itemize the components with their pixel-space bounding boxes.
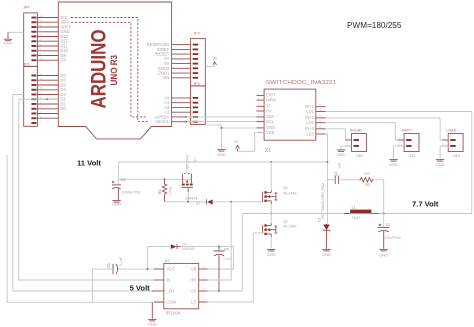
wire net IN from D2 row down left side — [19, 99, 154, 280]
supply 5V arrow near JP2 — [212, 55, 217, 65]
svg-text:7.7 Volt: 7.7 Volt — [412, 200, 439, 209]
svg-text:D8: D8 — [61, 58, 67, 63]
transistor Q2 IRLZ44Z — [263, 186, 298, 204]
wire LO to Q3 gate — [208, 233, 263, 302]
svg-text:COM: COM — [166, 299, 176, 304]
svg-text:R1: R1 — [158, 189, 162, 194]
junction HO riser — [230, 201, 232, 203]
mcu U1 left pin stubs — [37, 18, 58, 119]
connector U$2 SOLAR — [345, 129, 366, 159]
transistor Q3 IRLZ44Z — [263, 219, 298, 237]
mcu U1 left pin names — [61, 15, 72, 111]
svg-text:GND: GND — [379, 253, 388, 258]
svg-text:Q1: Q1 — [193, 158, 197, 163]
junction on IN net at pin row — [46, 98, 48, 100]
junction 11V to Q2 drain — [270, 161, 272, 163]
svg-text:PWM=180/255: PWM=180/255 — [347, 21, 402, 30]
svg-text:PV: PV — [266, 108, 272, 113]
junction A4 net — [185, 116, 187, 118]
svg-text:GND: GND — [112, 201, 121, 206]
svg-text:GND: GND — [389, 162, 398, 167]
wire switch node to L1 — [271, 213, 350, 215]
svg-text:SWITCHDOC_INA3221: SWITCHDOC_INA3221 — [266, 80, 337, 86]
junction Q1 source on gate-feed — [187, 201, 189, 203]
svg-text:C6: C6 — [107, 263, 111, 268]
svg-text:SOLAR: SOLAR — [350, 129, 363, 133]
svg-text:U$3: U$3 — [453, 153, 461, 158]
wire R2 to output node — [375, 180, 384, 214]
svg-text:LD2: LD2 — [306, 120, 314, 125]
mcu U1 ARDUINO UNO R3 outline — [58, 2, 171, 139]
svg-text:VB: VB — [191, 266, 197, 271]
ground below D2 — [322, 249, 331, 257]
wire D3 to VB — [181, 247, 234, 269]
svg-text:IRLZ44Z: IRLZ44Z — [283, 191, 297, 195]
svg-text:A5/SCL: A5/SCL — [155, 119, 170, 124]
wire 11V to Q2 drain — [270, 162, 272, 190]
mcu U1 right pin stubs — [172, 45, 191, 122]
wire VS corner to switch rail — [208, 214, 272, 292]
ic X1 SWITCHDOC_INA3221 — [256, 80, 336, 154]
wire 11V rail — [118, 161, 327, 163]
wire input rail — [118, 178, 191, 180]
wire C3 to R2 — [339, 179, 360, 181]
svg-text:ARDUINO: ARDUINO — [87, 30, 110, 109]
svg-text:U$1: U$1 — [409, 153, 417, 158]
svg-text:BATT: BATT — [402, 129, 412, 133]
svg-text:IRLZ44Z: IRLZ44Z — [186, 154, 190, 168]
svg-text:470K: 470K — [169, 186, 173, 195]
wire SOLAR pin2 to ground — [341, 146, 352, 149]
svg-text:IR2104: IR2104 — [165, 311, 180, 316]
wire LD3 net down to snubber — [326, 134, 328, 224]
svg-text:1N4738MCLORG_PAD: 1N4738MCLORG_PAD — [321, 183, 325, 220]
label 5 Volt — [130, 283, 151, 292]
diode D1 1N4148 — [185, 196, 213, 205]
ground below Q3 — [267, 249, 276, 257]
junction output C2 — [383, 212, 385, 214]
connector JP3 lower header — [191, 82, 206, 124]
wire IN+2b net to BATT — [326, 123, 405, 140]
ground below IR2104 COM — [148, 302, 157, 326]
diode D3 1N4148 — [171, 243, 195, 251]
connector JP1 lower header — [24, 62, 44, 126]
svg-text:5V: 5V — [212, 55, 217, 60]
wire GND bus left side — [7, 155, 164, 302]
svg-text:U?: U? — [165, 259, 170, 263]
svg-text:D0: D0 — [61, 106, 67, 111]
svg-text:C1: C1 — [121, 178, 126, 182]
wire Q2 source to Q3 drain — [270, 204, 272, 223]
wire Q1 drain to 11V rail — [186, 166, 188, 174]
supply 5V arrow near X1 — [234, 139, 240, 151]
capacitor C1 1000uF/25V — [112, 178, 141, 200]
inductor L1 22uH — [344, 206, 379, 220]
resistor R2 200 — [359, 172, 374, 187]
connector U$3 LOAD — [442, 129, 463, 159]
svg-text:C3: C3 — [334, 172, 338, 177]
svg-text:VS: VS — [191, 288, 197, 293]
label PWM — [347, 21, 402, 30]
svg-text:SCL: SCL — [266, 119, 275, 124]
svg-text:11 Volt: 11 Volt — [77, 158, 101, 167]
svg-text:0.1uF: 0.1uF — [119, 257, 123, 266]
capacitor C6 0.1uF — [107, 257, 123, 274]
junction C4 top — [218, 246, 220, 248]
wire R1 bottom to D1 — [165, 201, 207, 203]
svg-text:LOAD: LOAD — [446, 129, 456, 133]
svg-text:22uH: 22uH — [352, 216, 361, 220]
wire C6 right to VCC — [117, 268, 154, 270]
svg-text:JP1: JP1 — [24, 62, 30, 66]
wire 11V down to C1 rail — [117, 162, 119, 179]
wire net SDA A4 to INA3221 — [186, 116, 264, 118]
svg-text:LO: LO — [191, 299, 196, 304]
wire INA3221 GND pin to ground — [221, 127, 256, 129]
mcu U1 right pin names — [147, 42, 170, 124]
svg-text:IN: IN — [166, 277, 170, 282]
svg-text:1000uF/25V: 1000uF/25V — [122, 190, 142, 194]
mcu U1 internal dashed SDA link — [71, 22, 146, 117]
wire VDD to 5V — [238, 133, 265, 152]
svg-text:R2: R2 — [365, 183, 370, 187]
wire net /SD from header (D3 row) down left side — [13, 95, 154, 292]
ic U2 IR2104 gate driver — [154, 259, 208, 316]
svg-text:1uF: 1uF — [337, 162, 341, 168]
wire IN+2 net to right edge — [326, 112, 472, 214]
svg-text:U$2: U$2 — [356, 153, 364, 158]
svg-text:220uF/16V: 220uF/16V — [384, 236, 402, 240]
junction INA gnd wire — [220, 127, 222, 129]
svg-text:X1: X1 — [265, 148, 272, 154]
svg-text:1N4148: 1N4148 — [185, 196, 197, 200]
ground top-left — [4, 32, 13, 45]
svg-text:GND: GND — [337, 152, 346, 157]
ground below LOAD — [436, 160, 445, 168]
resistor R1 470K — [158, 179, 172, 202]
wire Q1 source down to gate-feed net — [187, 188, 189, 202]
svg-text:GND: GND — [148, 321, 157, 326]
wire C6 left down to ground bus — [93, 269, 113, 302]
wire HO to Q2 gate — [208, 202, 232, 280]
ground below C1 — [112, 201, 121, 207]
wire JP2 bottom to ground — [205, 125, 221, 149]
mcu U1 internal dashed SCL link — [71, 18, 148, 122]
svg-text:IRLZ44Z: IRLZ44Z — [283, 224, 297, 228]
svg-text:5V: 5V — [234, 139, 239, 144]
svg-text:VCC: VCC — [166, 266, 175, 271]
svg-text:Q3: Q3 — [283, 219, 288, 223]
wire BATT pin2 to ground — [394, 146, 405, 159]
wire VCC riser to D3 — [148, 247, 171, 270]
svg-text:VDD: VDD — [266, 130, 275, 135]
svg-text:WRN: WRN — [266, 97, 276, 102]
svg-text:LD1: LD1 — [306, 109, 314, 114]
svg-text:5 Volt: 5 Volt — [130, 283, 151, 292]
svg-text:D1: D1 — [196, 202, 201, 206]
wire arduino GND to ground — [8, 31, 24, 33]
wire LD3 node to C3 — [327, 179, 334, 181]
junction A5 net — [185, 121, 187, 123]
junction switch node — [270, 212, 272, 214]
junction VCC riser — [146, 268, 148, 270]
ground below BATT — [389, 160, 398, 168]
capacitor C2 220uF/16V — [378, 214, 402, 249]
junction on /SD net at 5 Volt label — [152, 290, 154, 292]
capacitor C4 0.1uF bootstrap — [214, 247, 233, 291]
mcu U1 ARDUINO label — [87, 30, 118, 109]
svg-text:_SD: _SD — [165, 288, 174, 293]
ground below SOLAR — [337, 150, 346, 157]
svg-text:C2: C2 — [386, 223, 391, 227]
svg-text:VIN: VIN — [162, 75, 169, 80]
wire Q3 source to ground — [270, 237, 272, 249]
junction R1 top — [163, 178, 165, 180]
svg-text:GND: GND — [322, 252, 331, 257]
svg-text:HO: HO — [190, 277, 196, 282]
capacitor C3 — [334, 162, 342, 184]
svg-text:1N4148: 1N4148 — [182, 247, 194, 251]
wire net SCL A5 to INA3221 — [186, 121, 264, 123]
svg-text:C4: C4 — [224, 247, 229, 251]
svg-text:GND: GND — [267, 252, 276, 257]
junction 11V at LD3 riser — [326, 161, 328, 163]
wire 5V stub — [205, 65, 214, 67]
wire IN+3 net to SOLAR — [326, 129, 352, 140]
svg-text:200: 200 — [364, 172, 370, 176]
label 7.7 Volt — [412, 200, 439, 209]
connector JP4 upper header — [23, 5, 43, 66]
svg-text:JP2: JP2 — [194, 31, 200, 35]
junction C4 bottom on VS — [218, 290, 220, 292]
svg-text:GND: GND — [4, 40, 13, 45]
wire LOAD pin2 to ground — [440, 146, 448, 159]
wire L1 to output rail — [379, 213, 472, 215]
svg-text:GND: GND — [217, 152, 226, 157]
transistor Q1 IRLZ44Z — [182, 154, 198, 187]
ground below JP2 — [217, 150, 226, 157]
wire D1 to Q2 gate — [213, 201, 263, 203]
label 11 Volt — [77, 158, 101, 167]
ground below C2 — [379, 249, 388, 257]
svg-text:LD3: LD3 — [306, 131, 314, 136]
svg-text:GND: GND — [436, 162, 445, 167]
connector JP2 upper header — [191, 31, 206, 86]
wire LD1 net to LOAD — [326, 118, 449, 140]
diode D2 zener 1N4738 — [317, 183, 330, 249]
svg-text:JP4: JP4 — [23, 5, 29, 9]
svg-text:JP3: JP3 — [194, 82, 200, 86]
connector U$1 BATT — [398, 129, 419, 159]
svg-text:Q2: Q2 — [283, 186, 288, 190]
svg-text:L1: L1 — [352, 206, 356, 210]
svg-text:UNO R3: UNO R3 — [109, 55, 119, 86]
